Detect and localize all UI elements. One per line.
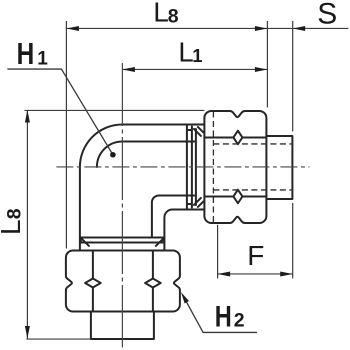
nut bottom division line left [92, 250, 94, 311]
nut bottom (on vertical leg) outline [66, 250, 180, 311]
label H2 [215, 300, 245, 333]
nut bottom division line right [152, 250, 154, 311]
label H1 [17, 37, 49, 71]
arrow F left [218, 271, 231, 276]
elbow body inner neck profile [97, 141, 194, 237]
extension line bottom (y=338) [26, 338, 90, 340]
centerline horizontal [56, 63, 309, 348]
body end face (bottom) [80, 236, 164, 238]
extension line nut right face (x=267) [266, 21, 268, 108]
tube stub bottom [91, 311, 154, 339]
svg-text:L: L [0, 219, 26, 235]
H1 leader dot [110, 152, 116, 158]
tube stub right [266, 136, 292, 199]
L8 left vertical dimension line [26, 110, 28, 339]
label L1 [178, 37, 202, 68]
hidden bore right lower [213, 189, 291, 191]
hidden bore dashed lines [213, 111, 291, 222]
H2 leader [183, 295, 257, 332]
svg-text:1: 1 [37, 48, 48, 69]
nut bottom diamond right [145, 278, 161, 287]
F extension line right [292, 203, 294, 279]
svg-text:1: 1 [192, 45, 202, 66]
sleeve washer (right) [187, 126, 192, 207]
svg-text:H: H [215, 300, 232, 333]
sleeve trapezoid (right) [194, 127, 204, 207]
svg-text:S: S [317, 0, 337, 30]
sleeve trapezoid (bottom) [82, 239, 163, 246]
L1 dimension line [122, 68, 267, 70]
label L8 top [153, 0, 179, 28]
extension line left of nut bottom (x=66) [65, 21, 67, 249]
nut right (on horizontal leg) outline [204, 111, 266, 223]
hidden bore right upper [213, 143, 291, 145]
arrow L8 top right [255, 26, 268, 31]
extension line top (y=110) [24, 109, 204, 111]
S tail dimension line [267, 27, 348, 29]
svg-text:8: 8 [3, 208, 25, 219]
arrow S left [293, 26, 306, 31]
leader lines H1 H2 [7, 69, 257, 332]
svg-text:H: H [17, 37, 35, 71]
nut right diamond lower [233, 190, 242, 204]
arrow H2 leader [181, 292, 189, 304]
body end face (right) [186, 125, 188, 209]
H1 leader [7, 69, 113, 155]
svg-text:8: 8 [168, 5, 179, 27]
elbow body outer profile [80, 124, 204, 250]
label L8 left rotated [0, 208, 26, 235]
arrowheads [25, 26, 305, 339]
nut right division line lower [204, 195, 266, 197]
arrow L8 top left [66, 26, 79, 31]
nut right diamond upper [233, 131, 242, 145]
arrow L1 left [122, 67, 134, 72]
sleeve washer (bottom) [80, 237, 163, 242]
arrow L8 vertical top [25, 110, 30, 123]
arrow L8 vertical bottom [25, 326, 30, 339]
centerline vertical [121, 63, 123, 348]
arrow L1 right [255, 67, 268, 72]
svg-text:F: F [247, 240, 264, 271]
nut right division line upper [204, 136, 266, 138]
arrow F right [280, 271, 293, 276]
F dimension line [218, 273, 293, 275]
hidden line nut right vertical [212, 111, 214, 222]
F extension line left [217, 225, 219, 279]
extension line stub right end (x=292.3) [292, 21, 294, 132]
svg-text:L: L [153, 0, 169, 28]
L8 top dimension line [66, 27, 267, 29]
nut bottom diamond left [85, 278, 101, 287]
svg-text:2: 2 [234, 309, 245, 331]
